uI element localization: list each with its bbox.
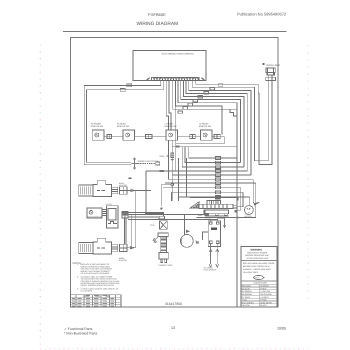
bake ignitor terminal box bbox=[111, 187, 117, 194]
svg-text:FGFB66E: FGFB66E bbox=[148, 12, 166, 17]
svg-text:AS THIS APPLIANCE REQUIRES: AS THIS APPLIANCE REQUIRES bbox=[81, 272, 110, 275]
legend table grid bbox=[71, 295, 122, 307]
wire EOC right fan 5 bbox=[183, 81, 244, 108]
connector P1 pin strip bbox=[147, 78, 204, 81]
wire motor bottom loop bbox=[197, 183, 256, 218]
chassis ground symbol bbox=[153, 238, 158, 244]
spark output lead 1 bbox=[209, 243, 212, 267]
spark module top pin 1 feed bbox=[210, 219, 212, 222]
svg-text:OVEN DOOR SW: OVEN DOOR SW bbox=[87, 215, 102, 218]
spark module hook wire with arrow bbox=[218, 218, 226, 228]
svg-text:Y YELLOW: Y YELLOW bbox=[260, 290, 270, 293]
ignitor switch S4 bbox=[201, 130, 213, 140]
junction blob on latch wires bbox=[122, 212, 128, 215]
connector on fan wire 7 bbox=[183, 107, 188, 109]
wire bus to bundle row 3 bbox=[182, 147, 244, 167]
connector on bundle row 7 bbox=[215, 182, 220, 185]
right vertical to motor M2 bbox=[249, 197, 251, 206]
arrow on broil wire bbox=[130, 247, 134, 249]
svg-text:W WHITE: W WHITE bbox=[260, 285, 269, 288]
connector blob on lower run bbox=[176, 146, 180, 148]
svg-text:POWER CORD: POWER CORD bbox=[159, 264, 174, 267]
wire EOC right fan 8 bbox=[175, 81, 222, 135]
right vertical to motor arrow bbox=[253, 179, 254, 202]
svg-text:WIRING DIAGRAM: WIRING DIAGRAM bbox=[137, 21, 179, 27]
gas valve lower bar bbox=[204, 210, 229, 215]
legend table header band bbox=[85, 295, 110, 296]
wire EOC right fan 4 bbox=[186, 81, 247, 105]
wire junction to power cord feed bbox=[161, 185, 171, 206]
right vertical to warning area bbox=[236, 116, 238, 307]
connector at electrode wire end bbox=[156, 162, 160, 165]
scan dot column right bbox=[40, 45, 309, 349]
right vertical fan3 to bundle bbox=[243, 108, 245, 167]
wire drop to S4 feed bbox=[173, 81, 230, 109]
svg-text:GY GRAY: GY GRAY bbox=[242, 296, 251, 299]
color code table text bbox=[242, 285, 273, 308]
wire latch to power cord top bbox=[128, 213, 164, 217]
svg-text:GND: GND bbox=[160, 155, 165, 158]
svg-text:OR ORANGE: OR ORANGE bbox=[260, 293, 272, 296]
svg-text:* Non-Illustrated Parts: * Non-Illustrated Parts bbox=[64, 332, 97, 336]
wire drop through to bundle row 4 bbox=[176, 81, 248, 171]
wire EOC right fan 1 bbox=[196, 81, 259, 93]
bundle wire row 6 bbox=[169, 140, 254, 179]
wire broil connector to bus bbox=[127, 247, 136, 249]
svg-text:REPLACE WIRE AND WIRE COLOR: REPLACE WIRE AND WIRE COLOR bbox=[243, 262, 275, 265]
svg-text:OVEN LIGHT: OVEN LIGHT bbox=[266, 64, 281, 67]
connector on bundle row 9 bbox=[215, 191, 220, 194]
wire lamp right leg bbox=[259, 75, 272, 164]
spark module text label bbox=[211, 228, 217, 231]
warning box W1 bbox=[241, 247, 277, 307]
svg-text:BEFORE PINS, COPPER NEXT: BEFORE PINS, COPPER NEXT bbox=[243, 265, 271, 268]
wire box3 bottom to gnd junction bbox=[171, 140, 173, 146]
connector pair S2-S3 bbox=[146, 135, 149, 139]
wire S4 output loop bbox=[176, 137, 225, 144]
wire lamp left leg bbox=[255, 75, 269, 161]
bake ignitor value label bbox=[97, 190, 105, 191]
bundle wire row 5 bbox=[172, 174, 251, 176]
door latch assembly A1 bbox=[106, 206, 118, 228]
svg-text:AFTER SERVICING UNIT: AFTER SERVICING UNIT bbox=[247, 257, 270, 260]
scan registration dots left column bbox=[0, 0, 1, 1]
wire above valve bbox=[190, 198, 238, 201]
broil ignitor connector bbox=[120, 244, 127, 251]
svg-text:GN-Y GREEN: GN-Y GREEN bbox=[242, 301, 255, 304]
warning divider 2 bbox=[241, 280, 277, 282]
spark output lead 2 bbox=[216, 243, 219, 267]
connector on fan wire 8 bbox=[178, 111, 183, 113]
svg-text:Publication No 5995490672: Publication No 5995490672 bbox=[237, 12, 287, 17]
svg-text:YELLOW STRIPE: YELLOW STRIPE bbox=[243, 271, 259, 274]
right vertical to valve terminal bbox=[238, 187, 241, 211]
junction blob on bottom run bbox=[205, 213, 209, 215]
oven door switch S5 bbox=[87, 208, 102, 218]
gas valve terminal strip top bbox=[207, 201, 220, 205]
wire switch feed lower run bbox=[172, 146, 237, 148]
svg-text:BAKE: BAKE bbox=[198, 214, 204, 217]
wire S3 to S4 bbox=[178, 136, 201, 138]
connector on fan wire 5 bbox=[193, 100, 198, 102]
connector on upper left wire bbox=[127, 84, 132, 87]
oven lamp DS1 bbox=[266, 68, 275, 73]
color code row lines bbox=[241, 287, 277, 304]
wire valve tab row bbox=[205, 215, 229, 217]
wire EOC left to spark electrode lower bbox=[86, 81, 163, 162]
wire S4 feed lower run bbox=[230, 109, 237, 116]
gnd arrow on drop bbox=[170, 159, 174, 161]
spark electrode E1 bbox=[132, 158, 139, 170]
wire bus to bundle row 2 bbox=[185, 147, 240, 163]
svg-text:BU BLUE: BU BLUE bbox=[242, 287, 251, 290]
connector blob on row 4 left bbox=[160, 170, 165, 172]
connector on bundle row 2 bbox=[215, 161, 220, 164]
warning oval part number bbox=[252, 275, 265, 279]
motor M2 arrow connector bbox=[254, 202, 259, 205]
wire latch drop a bbox=[124, 218, 126, 244]
right vertical fan2 to bundle bbox=[239, 112, 241, 163]
svg-text:BK BLACK: BK BLACK bbox=[242, 285, 252, 288]
svg-text:IGNITOR SW: IGNITOR SW bbox=[199, 125, 211, 128]
svg-text:R RED: R RED bbox=[260, 287, 267, 290]
right vertical fan4 to bundle bbox=[246, 105, 248, 171]
notes item 2 bbox=[77, 275, 120, 287]
wire drop to gas valve feed bbox=[186, 158, 188, 198]
spark module A2 bbox=[208, 221, 220, 247]
bundle wire row 9 bbox=[172, 192, 244, 201]
svg-text:W-BK WHITE: W-BK WHITE bbox=[260, 301, 272, 304]
wire drop to ignitor switch S3 pin b bbox=[169, 81, 171, 130]
connector on bundle row 1 bbox=[215, 157, 220, 160]
spark module bottom pin 2 bbox=[216, 241, 219, 243]
connector on fan wire 2 bbox=[210, 88, 215, 90]
svg-text:316417800: 316417800 bbox=[165, 302, 182, 306]
svg-text:13: 13 bbox=[171, 326, 175, 330]
svg-text:BR BROWN: BR BROWN bbox=[242, 293, 253, 296]
svg-text:V VIOLET: V VIOLET bbox=[260, 296, 269, 299]
oven lamp DS1 label bbox=[263, 63, 282, 67]
wire S2 to S3 bbox=[135, 136, 166, 138]
gas valve right terminal bbox=[233, 206, 237, 208]
bundle wire row 3 bbox=[182, 166, 244, 168]
connector on fan wire 4 bbox=[198, 96, 203, 98]
inline connector on gnd drop bbox=[171, 153, 174, 157]
power cord coil bbox=[161, 237, 167, 253]
wire latch bottom run bbox=[128, 218, 218, 220]
color code divider bbox=[241, 284, 277, 307]
connector pair S3-S4 bbox=[190, 135, 193, 139]
broil ignitor value label bbox=[97, 247, 105, 248]
svg-text:10/05: 10/05 bbox=[277, 327, 286, 331]
wire bake connector to bus bbox=[127, 191, 151, 248]
connector on bundle row 5 bbox=[215, 174, 220, 177]
svg-text:EXAMPLE : GREEN WIRE WITH: EXAMPLE : GREEN WIRE WITH bbox=[243, 268, 272, 271]
ignitor switch S2 bbox=[123, 130, 135, 140]
connector on valve top wire bbox=[215, 196, 220, 199]
bundle wire row 8 bbox=[163, 186, 240, 188]
svg-text:IGNITOR SW: IGNITOR SW bbox=[91, 125, 103, 128]
wire EOC right fan 6 bbox=[181, 81, 241, 112]
svg-text:WARNING: WARNING bbox=[251, 249, 263, 252]
svg-text:ALL OTHERS: ALL OTHERS bbox=[81, 290, 93, 293]
svg-text:BEFORE SERVICING UNIT: BEFORE SERVICING UNIT bbox=[246, 254, 270, 257]
wire latch lower bbox=[128, 216, 158, 218]
power cord inlet connector bbox=[159, 216, 165, 219]
wire EOC right fan 2 bbox=[192, 81, 254, 97]
wire EOC right fan 7 bbox=[178, 81, 237, 116]
wire latch drop b bbox=[125, 218, 127, 244]
connector on bundle row 3 bbox=[215, 166, 220, 169]
wire bus to bundle row 1 bbox=[189, 147, 237, 158]
door switch connector pins bbox=[102, 210, 106, 216]
spark module ground mark bbox=[196, 240, 199, 244]
right vertical to valve right terminal bbox=[237, 192, 243, 207]
bundle wire row 1 bbox=[189, 157, 237, 159]
wire gnd drop bbox=[171, 147, 173, 201]
wire color dash above bake bbox=[128, 178, 131, 180]
svg-text:✓ Functional Parts: ✓ Functional Parts bbox=[64, 327, 93, 331]
wire drop to ignitor switch S3 pin a bbox=[166, 81, 168, 130]
bundle wire row 4 bbox=[146, 171, 247, 213]
electronic oven control U1 bbox=[133, 51, 206, 81]
wire to power cord bbox=[145, 212, 164, 214]
wire valve to convection motor bbox=[184, 214, 186, 235]
bake ignitor HTR1 body bbox=[79, 181, 112, 197]
convection motor M1 bbox=[180, 235, 193, 248]
connector on bundle row 4 bbox=[215, 170, 220, 173]
ignitor switch S1 bbox=[92, 130, 104, 140]
arrow on bake wire bbox=[131, 189, 135, 191]
power cord feed arrow bbox=[160, 207, 162, 210]
junction circle on gnd drop bbox=[171, 183, 174, 186]
wire S1 to S2 bbox=[104, 136, 123, 138]
bake ignitor connector bbox=[120, 187, 127, 194]
gnd label bbox=[160, 155, 170, 158]
gas valve output connector bbox=[235, 210, 238, 212]
bundle wire row 7 bbox=[165, 182, 256, 184]
svg-text:GN GREEN: GN GREEN bbox=[242, 290, 253, 293]
legend table bottom left bbox=[71, 295, 122, 307]
connector pair S1-S2 bbox=[107, 135, 109, 139]
broil ignitor terminal box bbox=[111, 245, 117, 252]
notes item 1 bbox=[77, 263, 113, 275]
svg-text:IGNITOR SW: IGNITOR SW bbox=[165, 125, 177, 128]
connector on bundle row 8 bbox=[215, 186, 220, 189]
right vertical fan5 to bundle bbox=[250, 101, 252, 175]
spark module top pin 2 bbox=[217, 222, 219, 224]
power cord plug prong right bbox=[165, 259, 167, 263]
strain relief collar bbox=[158, 233, 168, 237]
legend table text marks bbox=[72, 295, 114, 306]
svg-text:P PINK: P PINK bbox=[260, 299, 267, 302]
connector on bundle row 6 bbox=[215, 178, 220, 181]
wire EOC right fan 3 bbox=[189, 81, 251, 101]
svg-text:BROIL: BROIL bbox=[206, 217, 211, 220]
svg-text:T TAN: T TAN bbox=[242, 299, 248, 302]
svg-text:ELECTRONIC OVEN CONTROL: ELECTRONIC OVEN CONTROL bbox=[162, 53, 195, 56]
wire electrode to connector bbox=[138, 163, 156, 165]
power cord plug body bbox=[159, 252, 168, 259]
wire EOC left to spark electrode upper bbox=[84, 81, 160, 165]
svg-text:BLACK: BLACK bbox=[260, 304, 267, 307]
terminal block TB1 crossed box bbox=[160, 221, 168, 229]
svg-text:ELECTRODES: ELECTRODES bbox=[204, 269, 218, 272]
warning divider bbox=[241, 259, 277, 261]
svg-text:TOD: TOD bbox=[150, 224, 155, 227]
notes item 3 bbox=[77, 287, 119, 292]
svg-text:IGNITOR: IGNITOR bbox=[119, 259, 127, 262]
spark module left ground wire bbox=[203, 232, 209, 240]
power cord plug prong left bbox=[161, 259, 163, 263]
svg-text:YELLOW: YELLOW bbox=[242, 304, 250, 307]
broil ignitor HTR2 body bbox=[79, 238, 112, 254]
svg-text:GN-Y: GN-Y bbox=[255, 277, 261, 280]
ignitor switch S3 bbox=[166, 130, 178, 140]
connector on fan wire 3 bbox=[204, 92, 209, 94]
heading rule bbox=[63, 31, 287, 33]
convection motor M1 arrow feed bbox=[187, 230, 189, 232]
spark module bottom pin 1 bbox=[210, 241, 213, 243]
oven light motor M2 bbox=[245, 206, 254, 215]
svg-text:DISCONNECT POWER: DISCONNECT POWER bbox=[247, 252, 268, 255]
wire latch drop c bbox=[131, 215, 133, 248]
wire latch middle bbox=[128, 210, 205, 215]
sheet border bbox=[71, 38, 279, 308]
spark module top pin 1 bbox=[210, 222, 212, 224]
connector on fan wire 6 bbox=[188, 103, 193, 105]
connector below oven lamp bbox=[266, 77, 276, 80]
connector on bundle row 10 bbox=[215, 196, 220, 199]
gas valve main bar bbox=[199, 204, 233, 208]
svg-text:VERIFY PROPER OPERATION AFTER: VERIFY PROPER OPERATION AFTER bbox=[81, 284, 115, 287]
svg-text:IGNITOR SW: IGNITOR SW bbox=[117, 125, 129, 128]
connector on lower left wire bbox=[120, 88, 125, 91]
connector pair S4 output bbox=[214, 135, 217, 139]
arrow on motor bottom wire bbox=[235, 216, 238, 218]
latch output connector bbox=[122, 211, 128, 218]
bundle wire row 2 bbox=[185, 162, 240, 164]
gas valve V1 hatched body bbox=[190, 202, 199, 208]
bundle wire row 10 bbox=[179, 158, 250, 201]
scan dot column left bbox=[40, 44, 42, 345]
connector on fan wire 1 bbox=[218, 84, 223, 86]
